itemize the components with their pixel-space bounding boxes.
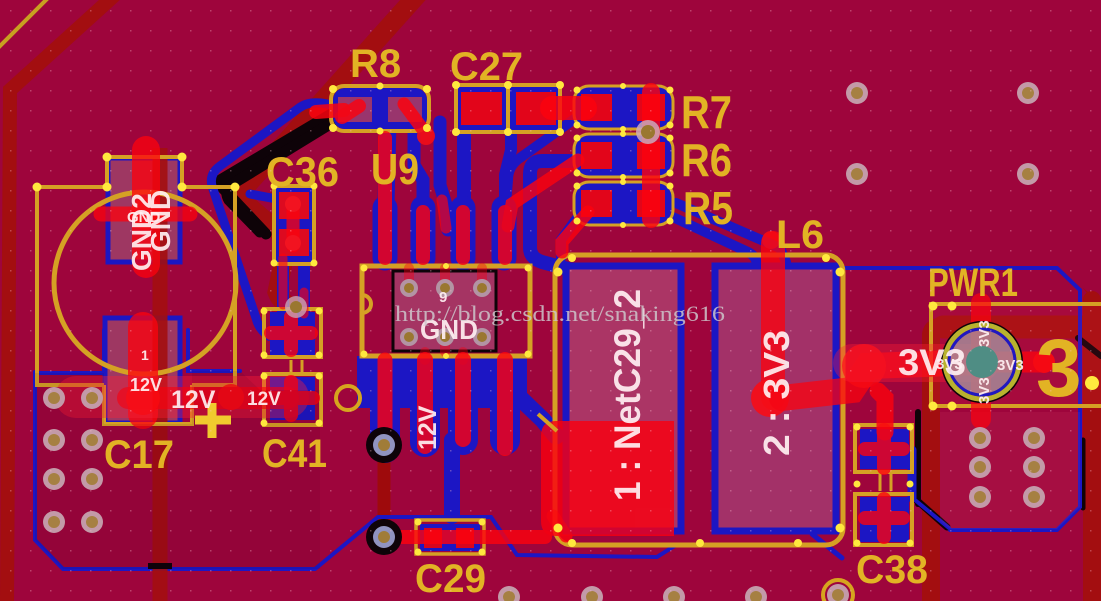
wire red trace below R8 third column — [442, 200, 446, 228]
resistor R6 courtyard — [574, 134, 673, 177]
capacitor C17 pad 2 GND — [108, 158, 180, 262]
inductor L6 pad 1 — [566, 266, 681, 531]
wire blue trace R7 left pad diagonal to U9 pin4 — [506, 115, 580, 204]
wire blue trace comb down to C29 — [444, 440, 460, 516]
via top right 4 — [1017, 163, 1039, 185]
wire red via link to C29 and L6 blob — [384, 530, 545, 544]
resistor R7 courtyard — [574, 86, 673, 129]
wire red trace in U9 pin1 column — [378, 138, 392, 258]
wire blue trace C41 right vertical to black via — [371, 372, 397, 440]
LAYER-BODIES — [105, 87, 1101, 551]
wire red trace in U9 pin4 column — [498, 212, 512, 258]
capacitor C29 body — [420, 524, 480, 551]
capacitor C36 body — [276, 188, 312, 262]
via top right 3 — [846, 163, 868, 185]
wire blue pour boundary top segment at 12V region — [35, 330, 104, 373]
wire blue stub below C27 right pad — [505, 126, 511, 200]
LAYER-RED — [76, 92, 1055, 537]
wire blue pour boundary right: L6 to PWR1 — [836, 268, 1080, 530]
resistor R8 body — [333, 88, 427, 129]
wire blue trace parallel to L6 pad2 top — [676, 203, 786, 262]
wire blue trace R8 right pad down to U9 pin1 — [386, 120, 388, 204]
wire red diagonal in R8 pad1 — [342, 106, 359, 117]
wire red wide 3V3 overlay band — [852, 344, 980, 382]
wire blue C38 pads right-side link — [908, 450, 917, 498]
capacitor C38 symbol ticks — [880, 474, 891, 491]
U9 pin slots top — [385, 208, 504, 258]
wire dimmed trace right side: band to right edge and stripe behind C38 — [943, 316, 1101, 339]
copper pour tint bottom-left — [35, 371, 320, 569]
wire red bridge C27 to R7 — [552, 96, 585, 120]
wire blue trace C27 left pad to U9 pin3 — [457, 126, 471, 204]
capacitor C38 courtyard — [855, 425, 912, 472]
wire red diagonal R5 to L6 pad1 — [562, 212, 588, 252]
wire red vertical through R7 R6 R5 right pads — [642, 92, 660, 219]
wire red trace pin2 comb — [417, 360, 433, 446]
via top right 2 — [1017, 82, 1039, 104]
IC U9 thermal vias — [400, 279, 491, 346]
resistor R5 body — [575, 183, 672, 224]
wire red C38 top pad up — [878, 391, 885, 432]
capacitor C17 pad 1 12V — [105, 318, 180, 423]
wire red PWR1 via to right cap — [982, 352, 1044, 373]
capacitor C27 body — [458, 87, 558, 130]
connector PWR1 via silk ring — [942, 322, 1022, 402]
wire dimmed vertical trace x160 over pads — [148, 148, 172, 601]
wire blue trace R8 right pad to U9 pin2 — [414, 124, 423, 210]
wire blue diagonal L6 pad2 corner down — [812, 534, 842, 558]
wire dimmed trace between black vias — [378, 445, 391, 537]
LAYER-SILK-UNDER — [37, 85, 1101, 554]
capacitor C38 pad bottom — [860, 497, 909, 542]
silk bright corner dots — [33, 81, 1100, 556]
board outline corner top-left — [0, 0, 50, 50]
wire black clearance along V trace — [217, 110, 338, 234]
node red blob below R8 — [417, 127, 435, 145]
PWR1 lower pad zone tint — [940, 412, 1080, 529]
capacitor C41 pad bottom — [270, 377, 315, 420]
IC U9 inner body — [393, 271, 496, 351]
capacitor C41 top pad cross — [271, 317, 311, 350]
capacitor C27 courtyard — [456, 85, 508, 132]
wire blue trace below R8 third vertical — [440, 122, 448, 230]
wire blue trace R5 right pad to L6 pad2 — [662, 212, 757, 264]
capacitor C17 courtyard square with notches — [37, 157, 235, 424]
wire blue arm comb toward L6 — [520, 398, 556, 436]
wire blue elbow R6 left pad down to L6 pad1 — [530, 161, 578, 270]
wire black casing of blue trace R8 to C41 — [227, 121, 335, 232]
capacitor C41 pad top — [270, 312, 315, 355]
wire blue stub into C36 top pad — [250, 194, 282, 200]
capacitor C38 pad top — [860, 429, 909, 469]
wire red trace pin4 comb — [497, 360, 513, 448]
LAYER-VIAS — [43, 82, 1045, 601]
capacitor C38 bottom pad cross — [865, 499, 903, 537]
wire red diagonal under L6 corner — [553, 516, 566, 536]
node red cap right of via — [1033, 351, 1055, 373]
node red blob L6 pad2 bottom — [751, 379, 789, 417]
via cluster bottom-left — [43, 387, 103, 533]
node red blob C17 pad2 — [130, 198, 162, 230]
capacitor C38 top pad cross — [865, 430, 903, 468]
wire blue traces C36 to C41 — [277, 260, 289, 316]
wire red C17 pad1 vertical — [128, 327, 158, 414]
capacitor C41 bottom pad cross — [267, 382, 313, 415]
wire red trace in U9 pin2 column — [416, 212, 430, 258]
connector PWR1 big via pad — [948, 328, 1016, 396]
node red blob C17 pad1 — [126, 381, 160, 415]
wire blue column U9 pin1 down to black via — [373, 400, 398, 445]
wire blue pour boundary bottom-left — [35, 372, 676, 569]
wire red trace C36 vertical — [287, 202, 300, 246]
capacitor C17 circle — [54, 192, 236, 374]
capacitor C41 symbol ticks — [291, 360, 302, 373]
wire red trace pin3 comb — [455, 360, 471, 439]
wire red diagonal R8 pad2 down-right — [404, 104, 424, 131]
wire red C17 pad2 vertical — [132, 150, 160, 264]
via cluster PWR1 — [969, 427, 1045, 508]
wire black casing C38 to PWR1 diagonal — [913, 497, 947, 527]
wire dimmed stripe right edge below chamfer — [1083, 288, 1101, 601]
wire red diagonal R6 left to pin4 column — [508, 160, 578, 226]
via near R7 right pad — [636, 120, 660, 144]
wire blue trace R5 left pad to L6 pad1 — [561, 211, 582, 258]
resistor R6 body — [575, 135, 672, 176]
capacitor C17 plus symbol — [195, 403, 231, 438]
resistor R8 courtyard — [331, 86, 429, 131]
wire wide 12V red band — [76, 376, 288, 418]
wire red stub left of R8 pad1 — [316, 110, 344, 112]
wire 12V red core trace — [128, 387, 288, 409]
wire red vertical through PWR1 via — [971, 303, 991, 419]
node red blob 3V3 — [842, 344, 886, 388]
wire red stubs into U9 thermal pads — [409, 268, 482, 284]
via black ring lower — [366, 519, 402, 555]
resistor R5 courtyard — [574, 182, 673, 225]
via ring marker left of L6 — [538, 414, 557, 431]
U9 bottom copper comb — [357, 356, 527, 408]
inductor L6 pad1 red pour blob — [541, 421, 674, 536]
capacitor C36 courtyard — [274, 186, 314, 264]
inductor L6 pad 2 — [715, 266, 836, 531]
via at C41 top pad — [285, 296, 307, 318]
via top right 1 — [846, 82, 868, 104]
via ring marker bottom edge — [823, 580, 853, 601]
wire red trace in U9 pin3 column — [456, 212, 470, 258]
inductor L6 courtyard — [555, 255, 843, 545]
node red blob 12V mid — [218, 384, 244, 410]
LAYER-BLUE — [35, 103, 1080, 569]
via ring marker near U9 — [336, 386, 360, 410]
wire red trace pin1 comb to via — [378, 360, 393, 438]
wire blue trace R8 left pad to C41 top pad — [211, 103, 338, 336]
IC U9 courtyard — [362, 266, 530, 356]
capacitor C41 courtyard — [264, 309, 321, 357]
wire red 3V3 trace L6 to PWR1 via — [782, 362, 982, 398]
wire red vertical L6 pad2 — [761, 243, 785, 398]
wire black clearance segments right side — [915, 412, 921, 504]
connector PWR1 courtyard — [931, 304, 1101, 408]
IC U9 pin1 notch — [362, 295, 371, 313]
wire dimmed trace diagonal V near R8/C36 to C41 via — [242, 0, 420, 308]
connector PWR1 interior tint — [931, 306, 1101, 406]
via black ring upper — [366, 427, 402, 463]
capacitor C29 courtyard — [416, 520, 484, 554]
wire dimmed trace top-left diagonal to left edge — [7, 0, 116, 601]
resistor R7 body — [575, 87, 672, 128]
via row bottom edge — [498, 584, 849, 601]
wire red C17 pad2 horizontal — [101, 207, 190, 222]
